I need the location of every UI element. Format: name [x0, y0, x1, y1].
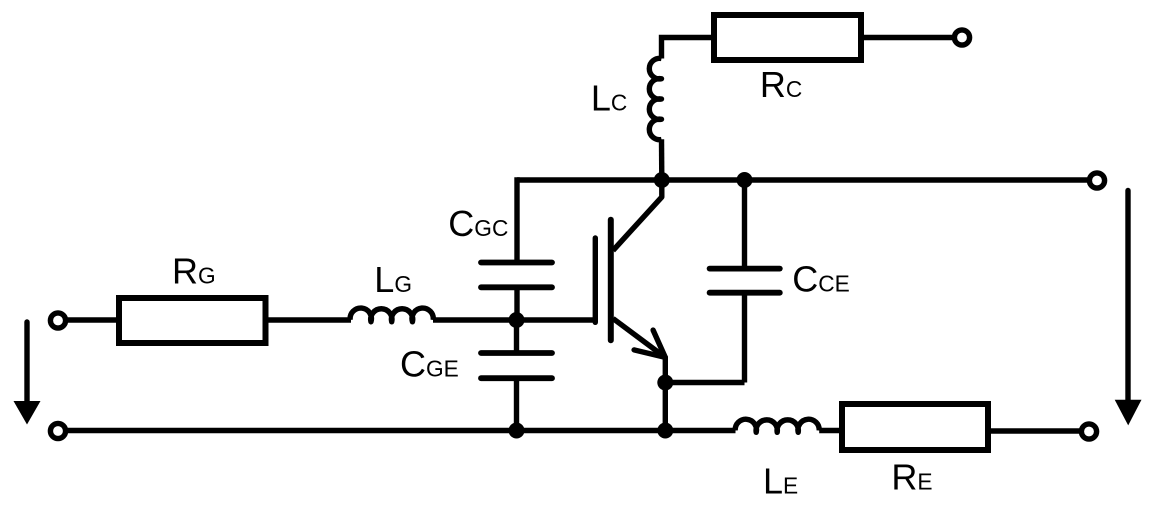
wire CGE bottom lead: [514, 378, 519, 430]
IGBT emitter diagonal: [613, 319, 665, 358]
IGBT collector branch: [613, 180, 662, 251]
wire top rail: [517, 177, 1088, 182]
resistor RG: [119, 298, 266, 343]
resistor RC: [714, 15, 861, 60]
capacitor CCE: [710, 269, 780, 293]
capacitor CGE: [481, 353, 552, 378]
wire LE to RE: [819, 428, 843, 433]
IGBT gate bar: [593, 238, 598, 322]
wire CCE top lead: [742, 180, 747, 269]
capacitor CGC: [481, 263, 552, 288]
terminal top-right: [1089, 173, 1104, 188]
wire gate horizontal: [433, 317, 595, 322]
terminal gate input: [50, 313, 65, 328]
wire emitter to CCE: [665, 380, 744, 385]
terminal bottom-right: [1081, 424, 1096, 439]
wire RG to LG: [266, 317, 352, 322]
wire emitter lead: [663, 357, 668, 430]
wire CCE bottom lead: [742, 293, 747, 383]
terminal RC output: [954, 30, 969, 45]
resistor RE: [842, 404, 988, 450]
arrow left: [14, 322, 41, 425]
wire CGC bottom lead: [514, 287, 519, 320]
terminal bottom-left: [50, 423, 65, 438]
wire LC bottom lead: [659, 139, 665, 180]
node emitter bottom: [657, 423, 673, 439]
inductor LG: [350, 308, 433, 322]
wire gate input: [66, 317, 119, 322]
node collector top: [654, 172, 670, 188]
wire LC top corner: [662, 38, 715, 59]
wire RC to terminal: [861, 35, 953, 40]
arrow right: [1115, 191, 1142, 426]
IGBT emitter arrowhead: [634, 330, 665, 357]
node CGE bottom: [509, 423, 525, 439]
inductor LE: [735, 419, 819, 432]
inductor LC: [649, 58, 661, 139]
wire bottom rail: [66, 428, 736, 433]
wire CGE top lead: [514, 320, 519, 353]
node emitter: [657, 375, 673, 391]
node CCE top: [737, 172, 753, 188]
wire RE to terminal: [988, 428, 1080, 433]
wire CGC top lead: [514, 177, 519, 262]
IGBT main bar: [608, 220, 614, 341]
node gate: [509, 312, 525, 328]
